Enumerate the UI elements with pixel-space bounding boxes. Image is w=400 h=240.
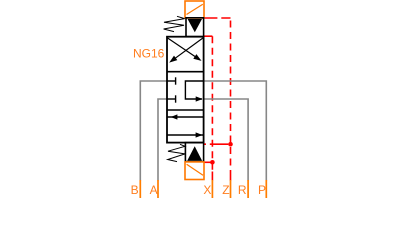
port stub A (orange): [157, 180, 159, 198]
junction dot on Z line: [228, 142, 233, 147]
crossed-arrow position: arrowhead 2: [193, 54, 201, 61]
arrowhead left: [171, 114, 178, 119]
U flow path arrowhead: [196, 96, 203, 101]
pilot poppet triangle top (filled, pointing down): [188, 19, 202, 32]
svg-text:NG16: NG16: [133, 47, 165, 61]
port stub B (orange): [139, 180, 141, 198]
solenoid bottom diagonal: [187, 164, 203, 175]
pilot poppet triangle bottom (filled, pointing up): [187, 146, 202, 161]
wire port R (grey): [204, 99, 249, 181]
crossed-arrow position: arrowhead 1: [169, 56, 177, 63]
spring bottom (zigzag): [168, 144, 185, 161]
pilot line X vertical solid tail (red): [211, 172, 213, 181]
main valve body: [167, 37, 204, 143]
port stub X (orange): [211, 180, 213, 198]
blocked port T bar (B): [175, 77, 177, 84]
blocked port T symbol (A): [167, 98, 175, 100]
pilot line Z vertical (red dashed): [230, 18, 232, 172]
crossed-arrow position: line 2: [168, 38, 200, 60]
junction dot on X line: [210, 160, 215, 165]
pilot line to Z bottom (red dashed horizontal): [204, 143, 228, 145]
pilot stage box bottom: [185, 143, 203, 162]
port stub P (orange): [265, 180, 267, 198]
svg-text:Z: Z: [222, 183, 229, 197]
svg-text:R: R: [238, 183, 247, 197]
pilot line Z (red dashed, top to bottom): [204, 17, 230, 19]
body divider 1: [167, 71, 204, 73]
spring top (zigzag): [164, 16, 185, 31]
wire port A (grey): [158, 99, 167, 181]
body divider 2: [167, 109, 204, 111]
pilot stage box top: [186, 18, 204, 37]
flow line left (position 3): [167, 116, 203, 118]
svg-text:A: A: [150, 183, 158, 197]
pilot line X bottom stub (red solid): [204, 161, 213, 163]
pilot line Z vertical solid tail (red): [230, 172, 232, 181]
svg-text:P: P: [258, 183, 266, 197]
blocked port T symbol (B): [167, 80, 175, 82]
U flow path P to R: [185, 81, 203, 99]
pilot line X vertical (red dashed): [211, 36, 213, 171]
svg-text:B: B: [131, 183, 139, 197]
blocked port T bar (A): [175, 95, 177, 102]
port stub Z (orange): [230, 180, 232, 198]
solenoid box bottom (orange): [185, 162, 204, 180]
port stub R (orange): [247, 180, 249, 198]
arrowhead right: [196, 132, 203, 137]
crossed-arrow position: line 1: [171, 38, 203, 61]
solenoid box top (orange): [185, 1, 204, 18]
flow line right (position 3): [167, 134, 203, 136]
solenoid top diagonal: [187, 4, 203, 14]
wire port B (grey): [140, 81, 167, 181]
pilot line X horizontal stub top (red): [204, 35, 212, 37]
svg-text:X: X: [203, 183, 211, 197]
wire port P (grey): [204, 81, 267, 181]
